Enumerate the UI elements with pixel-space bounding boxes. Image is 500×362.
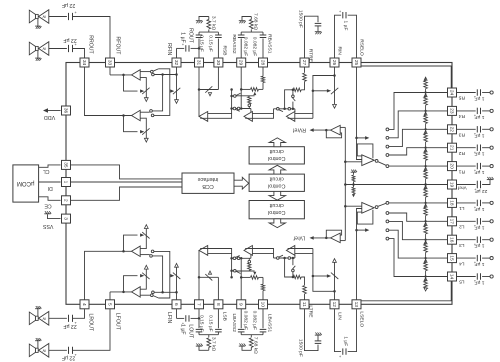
junction chain y147.7 — [424, 147, 426, 149]
wire Lbass row to opamp — [250, 255, 252, 259]
svg-text:1500 pF: 1500 pF — [298, 339, 304, 357]
wire RROUT feedback — [124, 116, 138, 132]
svg-text:18: 18 — [449, 200, 455, 206]
wire Ltreble riser cont — [301, 277, 304, 285]
attenuator RSB — [205, 86, 212, 96]
wire cap to bar — [240, 32, 242, 35]
junction ROUT internal — [198, 88, 201, 91]
svg-text:19: 19 — [449, 182, 455, 188]
ground (LTRE) — [315, 333, 322, 336]
wire R2 contact to pin — [389, 148, 447, 155]
op-amp RROUT buffer — [132, 110, 141, 120]
wire Ltreble fb loop — [288, 248, 313, 250]
wire treble fb top — [295, 112, 313, 114]
attenuator arrow LFOUT — [140, 273, 150, 279]
wire pin28 internal riser — [261, 67, 264, 89]
wire RFOUT output feed — [110, 74, 132, 76]
switch contact treble1 — [292, 95, 295, 98]
wire RFOUT feedback — [124, 75, 138, 91]
pin 31 box — [195, 58, 204, 67]
junction treble row2 b — [292, 108, 295, 111]
speaker+amplifier (RFOUT load) — [29, 10, 49, 29]
arrow bass control — [253, 92, 256, 95]
wire cap to terminal — [482, 110, 490, 112]
svg-text:0.082 µF: 0.082 µF — [243, 311, 249, 330]
wire RROUT atten input — [140, 118, 146, 138]
wire cap to terminal — [482, 239, 490, 241]
junction Lbass row2 a — [230, 257, 233, 260]
svg-text:28: 28 — [260, 60, 266, 66]
wire treble arrow branch — [313, 90, 327, 92]
wire cap to terminal — [482, 147, 490, 149]
svg-text:1500 pF: 1500 pF — [298, 10, 304, 28]
wire cap to ground — [482, 180, 490, 185]
wire resistor to ground — [199, 17, 209, 21]
wire cap to bar — [198, 32, 200, 35]
pin 36 box — [62, 106, 71, 115]
control circuit block A — [249, 147, 304, 164]
arrow RSELO to matrix — [365, 136, 369, 140]
pin 34 box — [80, 58, 89, 67]
switch arm Lbass row2 — [236, 256, 240, 258]
wire pin29 riser — [240, 39, 242, 58]
junction RVref fb — [325, 129, 328, 132]
switch arm Ltreble row2 — [279, 255, 283, 257]
wire LROUT output to coupling cap — [49, 317, 67, 319]
svg-text:Control: Control — [268, 155, 285, 161]
pin 9 box — [237, 300, 246, 309]
label 1500pF L — [298, 339, 304, 357]
resistor Lbass cell zig — [248, 263, 251, 271]
switch contact Lbass3 — [233, 257, 236, 260]
pin 2 box — [62, 196, 71, 205]
switch contact R3 sel — [386, 145, 389, 148]
capacitor 1500pF (RTRE) — [315, 23, 322, 26]
wire RVref output — [311, 129, 331, 131]
svg-text:LSB: LSB — [222, 312, 228, 321]
svg-text:22 µF: 22 µF — [63, 323, 76, 329]
svg-text:17: 17 — [449, 219, 455, 225]
svg-text:1 µF: 1 µF — [475, 280, 485, 286]
switch arm treble — [292, 98, 295, 102]
wire cap to pin 34 riser — [72, 49, 85, 58]
wire RVref input — [340, 126, 345, 128]
label 1uF R1 — [475, 169, 485, 175]
label RFOUT — [114, 37, 120, 56]
attenuator end arrow LFIN — [175, 263, 179, 267]
wire pin23 to 1uF cap — [457, 110, 476, 112]
svg-text:RIN: RIN — [337, 46, 343, 55]
wire Lbass row2 — [232, 257, 251, 259]
wire cap to terminal — [482, 257, 490, 259]
svg-text:0.15 µF: 0.15 µF — [207, 35, 213, 52]
wire Ltreble row to opamp — [294, 255, 296, 258]
switch arm treble row2 — [279, 110, 283, 112]
label RIN — [337, 46, 343, 55]
svg-text:36: 36 — [63, 108, 69, 114]
wire pin4 internal riser — [85, 251, 132, 299]
capacitor 0.082uF (LBASS2) — [238, 329, 245, 332]
label CE — [44, 203, 52, 209]
wire Ltreble to LIN column — [313, 249, 335, 292]
wire Ltreble left leg — [285, 258, 294, 277]
pin 10 box — [259, 300, 268, 309]
svg-text:W: W — [42, 47, 46, 51]
arrow RVref — [310, 128, 314, 132]
pin 12 box — [330, 300, 339, 309]
label VDD — [44, 114, 55, 120]
wire pin14 to 1uF cap — [457, 276, 476, 278]
pin 26 box — [330, 58, 339, 67]
pin 14 box — [448, 272, 457, 281]
wire LFOUT output to coupling cap — [49, 349, 67, 351]
svg-text:LFOUT: LFOUT — [114, 313, 120, 331]
svg-text:interface: interface — [198, 176, 219, 182]
op-amp LROUT buffer — [132, 246, 141, 256]
label 22uF (LROUT) — [63, 323, 76, 329]
switch contact treble2 — [277, 108, 280, 111]
svg-text:2: 2 — [63, 199, 69, 202]
wire treble to RIN column — [313, 76, 335, 119]
wire pin27 internal riser — [304, 67, 306, 73]
wire cap to terminal — [482, 92, 490, 94]
wire LROUT atten input — [140, 229, 146, 249]
arrow Vref lower end — [352, 194, 355, 197]
svg-text:1 µF: 1 µF — [475, 132, 485, 138]
resistor internal R bass — [241, 88, 263, 92]
svg-text:L2: L2 — [459, 224, 465, 230]
wire pin30 riser — [217, 39, 219, 58]
speaker+amplifier (LFOUT load) — [29, 338, 49, 357]
wire pin15 to 1uF cap — [457, 257, 476, 259]
wire pin13 internal riser — [357, 209, 362, 300]
switch contact bass1 — [234, 95, 237, 98]
switch contact R4 sel — [386, 136, 389, 139]
capacitor 22uF (LFOUT coupling) — [69, 347, 77, 358]
control bus arrow C down — [269, 191, 285, 200]
switch arm bass row2 — [236, 110, 240, 112]
pin 15 box — [448, 254, 457, 263]
svg-text:LBASS2: LBASS2 — [231, 314, 237, 333]
switch arm Ltreble — [292, 266, 295, 270]
wire bar pins31-30 network — [199, 31, 218, 33]
wire treble tap to row — [292, 102, 294, 109]
wire DI bus — [70, 181, 182, 183]
op-amp LFOUT buffer — [132, 287, 141, 297]
wire treble fb loop — [288, 117, 313, 119]
wire pin34 internal riser — [85, 67, 132, 115]
CCB to control arrow — [234, 177, 249, 189]
wire L1 contact to pin18 — [389, 202, 447, 204]
svg-text:1 µF: 1 µF — [475, 224, 485, 230]
wire pin33 internal riser — [109, 67, 111, 75]
resistor Vref upper — [352, 172, 355, 184]
ground (R bass) — [239, 21, 246, 24]
pin 35 box — [62, 160, 71, 169]
wire pin21 to 1uF cap — [457, 147, 476, 149]
svg-text:R4: R4 — [458, 113, 465, 119]
svg-text:22 µF: 22 µF — [62, 355, 75, 361]
svg-text:µCOM: µCOM — [17, 180, 34, 186]
label LIN — [337, 312, 343, 320]
svg-text:0.082 µF: 0.082 µF — [252, 37, 258, 56]
capacitor 1uF (L3) — [473, 237, 480, 247]
wire Lbass res to row — [248, 258, 250, 260]
op-amp LVref follower — [331, 233, 341, 243]
attenuator end arrow RROUT — [144, 138, 148, 142]
wire unit1L select input — [140, 294, 150, 296]
switch contact bass3 — [233, 107, 236, 110]
wire pin31 riser — [198, 39, 200, 58]
wire pin9 riser — [240, 309, 242, 328]
wire pin24 to 1uF cap — [457, 92, 476, 94]
svg-text:W: W — [42, 15, 46, 19]
label LBASS2 — [231, 314, 237, 333]
switch arm a — [153, 69, 158, 71]
switch contact bass2 — [248, 104, 251, 107]
wire pin22 to 1uF cap — [457, 128, 476, 130]
wire R sel feedback — [357, 144, 373, 158]
pin 6 box — [172, 300, 181, 309]
op-amp L selector buffer — [362, 202, 374, 213]
arrow LSELO to matrix — [365, 228, 369, 232]
junction bass sw tail — [230, 95, 233, 98]
wire pin25 internal riser — [357, 67, 362, 159]
capacitor 0.082uF (LBASS1) — [260, 329, 267, 332]
svg-text:RROUT: RROUT — [88, 35, 94, 54]
svg-text:1 µF: 1 µF — [475, 206, 485, 212]
wire pin26 riser up — [335, 15, 342, 58]
svg-text:RFIN: RFIN — [166, 43, 172, 55]
ground (Vref) — [487, 177, 494, 180]
pin 22 box — [448, 125, 457, 134]
capacitor 22uF (RROUT coupling) — [69, 42, 77, 52]
switch arm L selector — [378, 203, 386, 206]
arrow LVref — [310, 236, 314, 240]
switch contact c — [152, 73, 155, 76]
svg-text:23: 23 — [449, 108, 455, 114]
wire RFIN node to contacts — [154, 74, 176, 76]
IC body outline (main device) — [66, 63, 452, 305]
junction LOUT internal — [198, 276, 201, 279]
label 1uF R5 — [475, 96, 485, 102]
svg-text:CE: CE — [44, 203, 52, 209]
wire resistor to ground — [242, 17, 251, 21]
attenuator LSB — [205, 271, 212, 281]
switch contact bass4 — [237, 107, 240, 110]
wire L2 contact to pin — [389, 213, 447, 221]
label 0.15uF a — [199, 35, 205, 52]
svg-text:20: 20 — [449, 163, 455, 169]
wire RVref feedback — [326, 130, 341, 138]
resistor 7.68k (L bass) — [249, 335, 253, 351]
svg-text:circuit: circuit — [269, 148, 284, 154]
capacitor 0.15uF (LOUT) — [196, 329, 203, 332]
junction LOUT node — [198, 317, 201, 320]
svg-text:Control: Control — [268, 182, 285, 188]
resistor ladder chain — [424, 77, 428, 291]
pin 4 box — [80, 300, 89, 309]
svg-text:VSS: VSS — [42, 223, 53, 229]
switch contact Ld — [150, 255, 153, 258]
label 1uF L4 — [475, 261, 485, 267]
junction Lbass top — [240, 276, 243, 279]
attenuator arrow RFOUT — [140, 88, 150, 94]
svg-text:1 µF: 1 µF — [180, 324, 186, 334]
switch contact Lc — [152, 291, 155, 294]
wire bar pins7-8 network — [199, 334, 218, 336]
switch pole L selector — [375, 206, 378, 209]
wire pin12 internal riser — [334, 262, 336, 299]
switch contact L5 sel — [386, 237, 389, 240]
svg-text:3: 3 — [63, 217, 69, 220]
wire pin26 internal riser — [334, 67, 336, 104]
pin 29 box — [237, 58, 246, 67]
wire LSELO arrow — [357, 229, 366, 231]
svg-text:9: 9 — [238, 303, 244, 306]
svg-text:W: W — [42, 316, 46, 320]
wire crossover upper L — [154, 251, 170, 298]
svg-text:8: 8 — [215, 303, 221, 306]
wire L sel rail input — [345, 205, 362, 207]
label 1uF L5 — [475, 280, 485, 286]
wire LFOUT atten input — [140, 269, 146, 289]
attenuator arrow LROUT — [140, 232, 150, 238]
junction RIN node — [333, 74, 336, 77]
svg-text:33: 33 — [107, 60, 113, 66]
label R5 — [458, 95, 465, 101]
svg-text:1 µF: 1 µF — [475, 114, 485, 120]
resistor internal L bass — [241, 276, 263, 280]
label RSELO — [359, 39, 365, 56]
svg-text:1 µF: 1 µF — [475, 169, 485, 175]
pin 21 box — [448, 143, 457, 152]
svg-text:10: 10 — [260, 302, 266, 308]
svg-text:L5: L5 — [459, 279, 465, 285]
label LSELO — [359, 311, 365, 327]
label RVref — [292, 127, 306, 133]
wire L4 contact to pin — [389, 230, 447, 258]
svg-text:14: 14 — [449, 274, 455, 280]
svg-text:3.7 kΩ: 3.7 kΩ — [210, 16, 216, 31]
label 1uF (LFIN) — [180, 324, 186, 334]
label LROUT — [88, 314, 94, 332]
wire bass row to opamp — [250, 109, 252, 113]
label 0.082uF b — [252, 37, 258, 56]
pin 19 box — [448, 180, 457, 189]
pin 23 box — [448, 106, 457, 115]
svg-text:ROUT: ROUT — [188, 28, 194, 44]
op-amp LOUT buffer — [199, 246, 208, 256]
wire pin29 internal riser — [240, 67, 242, 108]
label 0.082uF La — [243, 311, 249, 330]
resistor Ltreble horizontal — [293, 275, 301, 279]
wire pin10 internal riser — [261, 277, 264, 299]
control bus arrow A up — [269, 138, 285, 147]
switch contact Lbass4 — [237, 257, 240, 260]
junction chain y166.1 — [424, 165, 426, 167]
resistor Ltreble vertical — [303, 286, 307, 294]
pin 11 box — [300, 300, 309, 309]
junction chain y110.9 — [424, 110, 426, 112]
pin 18 box — [448, 198, 457, 207]
label 0.15uF La — [199, 315, 205, 332]
svg-text:22 µF: 22 µF — [62, 2, 75, 8]
junction L sel rail — [344, 205, 347, 208]
junction LIN node — [333, 290, 336, 293]
svg-text:16: 16 — [449, 237, 455, 243]
wire cap to terminal — [482, 220, 490, 222]
wire LFIN node to contacts — [154, 291, 176, 293]
wire L3 contact to pin — [389, 221, 447, 239]
svg-text:RFOUT: RFOUT — [114, 37, 120, 56]
switch contact b — [151, 114, 154, 117]
wire CE bus — [70, 187, 182, 200]
wire Lbass control — [236, 270, 254, 272]
svg-text:L1: L1 — [459, 205, 465, 211]
label 0.082uF a — [243, 37, 249, 56]
wire pin11 internal riser — [304, 294, 306, 300]
label LFOUT — [114, 313, 120, 331]
svg-text:34: 34 — [81, 60, 87, 66]
wire RFOUT atten input — [140, 78, 146, 98]
svg-text:1 µF: 1 µF — [180, 32, 186, 42]
junction Ltreble top — [312, 275, 315, 278]
op-amp Lbass — [244, 246, 252, 256]
svg-text:RSELO: RSELO — [359, 39, 365, 56]
label 1500pF — [298, 10, 304, 28]
attenuator arrow LIN drive — [327, 274, 331, 277]
wire pin28 riser — [262, 39, 264, 58]
wire cap to terminal — [482, 202, 490, 204]
capacitor 1uF (R4) — [473, 108, 480, 118]
wire LVref input — [340, 240, 345, 242]
label R2 — [458, 150, 465, 156]
pin 24 box — [448, 88, 457, 97]
svg-text:RSB: RSB — [222, 45, 228, 55]
junction chain y92.5 — [424, 91, 426, 93]
wire pin6 riser down — [176, 309, 178, 318]
wire unit1 select input — [140, 71, 150, 73]
wire treble left leg — [285, 90, 294, 109]
wire LFOUT feedback — [124, 276, 138, 292]
attenuator end arrow RIN — [333, 104, 337, 108]
Vref rail — [344, 127, 346, 240]
capacitor 1500pF (LTRE) — [315, 341, 322, 344]
pin 28 box — [259, 58, 268, 67]
wire cap to pin 33 riser — [72, 17, 110, 58]
svg-text:1 µF: 1 µF — [475, 243, 485, 249]
wire pin32 riser up — [176, 48, 178, 57]
wire RFOUT output to coupling cap — [49, 16, 67, 18]
svg-text:27: 27 — [301, 60, 307, 66]
switch contact treble3 — [288, 108, 291, 111]
terminal R3 input — [490, 128, 493, 131]
wire crossover upper — [154, 69, 170, 116]
svg-text:4: 4 — [81, 303, 87, 306]
svg-text:25: 25 — [353, 60, 359, 66]
svg-text:R5: R5 — [458, 95, 465, 101]
junction LVref fb — [325, 237, 328, 240]
terminal R4 input — [490, 109, 493, 112]
arrow Lbass control — [253, 272, 256, 275]
junction bass top — [240, 88, 243, 91]
terminal R5 input — [490, 91, 493, 94]
op-amp RVref follower — [331, 125, 341, 135]
wire cap to bar — [217, 32, 219, 35]
ground (L tone) — [196, 344, 203, 347]
wire Ltreble arrow branch — [313, 275, 327, 277]
